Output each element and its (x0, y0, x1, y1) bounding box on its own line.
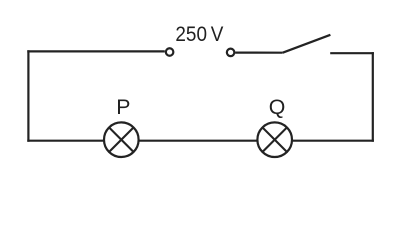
wire: right vertical side (372, 52, 374, 142)
lamp Q (circle with X) (257, 122, 292, 157)
svg-text:P: P (116, 95, 130, 119)
switch S1 blade (open) (283, 35, 331, 53)
lamp P (circle with X) (104, 122, 139, 157)
wire: top-left horizontal from left corner to supply terminal (27, 50, 165, 52)
wire: from supply terminal to switch pivot (235, 51, 283, 53)
svg-text:250 V: 250 V (175, 22, 224, 46)
wire: bottom horizontal through lamps P and Q (27, 140, 374, 142)
wire: left vertical side (27, 50, 29, 142)
supply terminal right / switch contact (open circle) (227, 49, 235, 57)
wire: top-right horizontal from switch fixed contact to right corner (330, 52, 374, 54)
supply terminal left (open circle) (166, 48, 174, 56)
svg-text:Q: Q (269, 95, 286, 119)
